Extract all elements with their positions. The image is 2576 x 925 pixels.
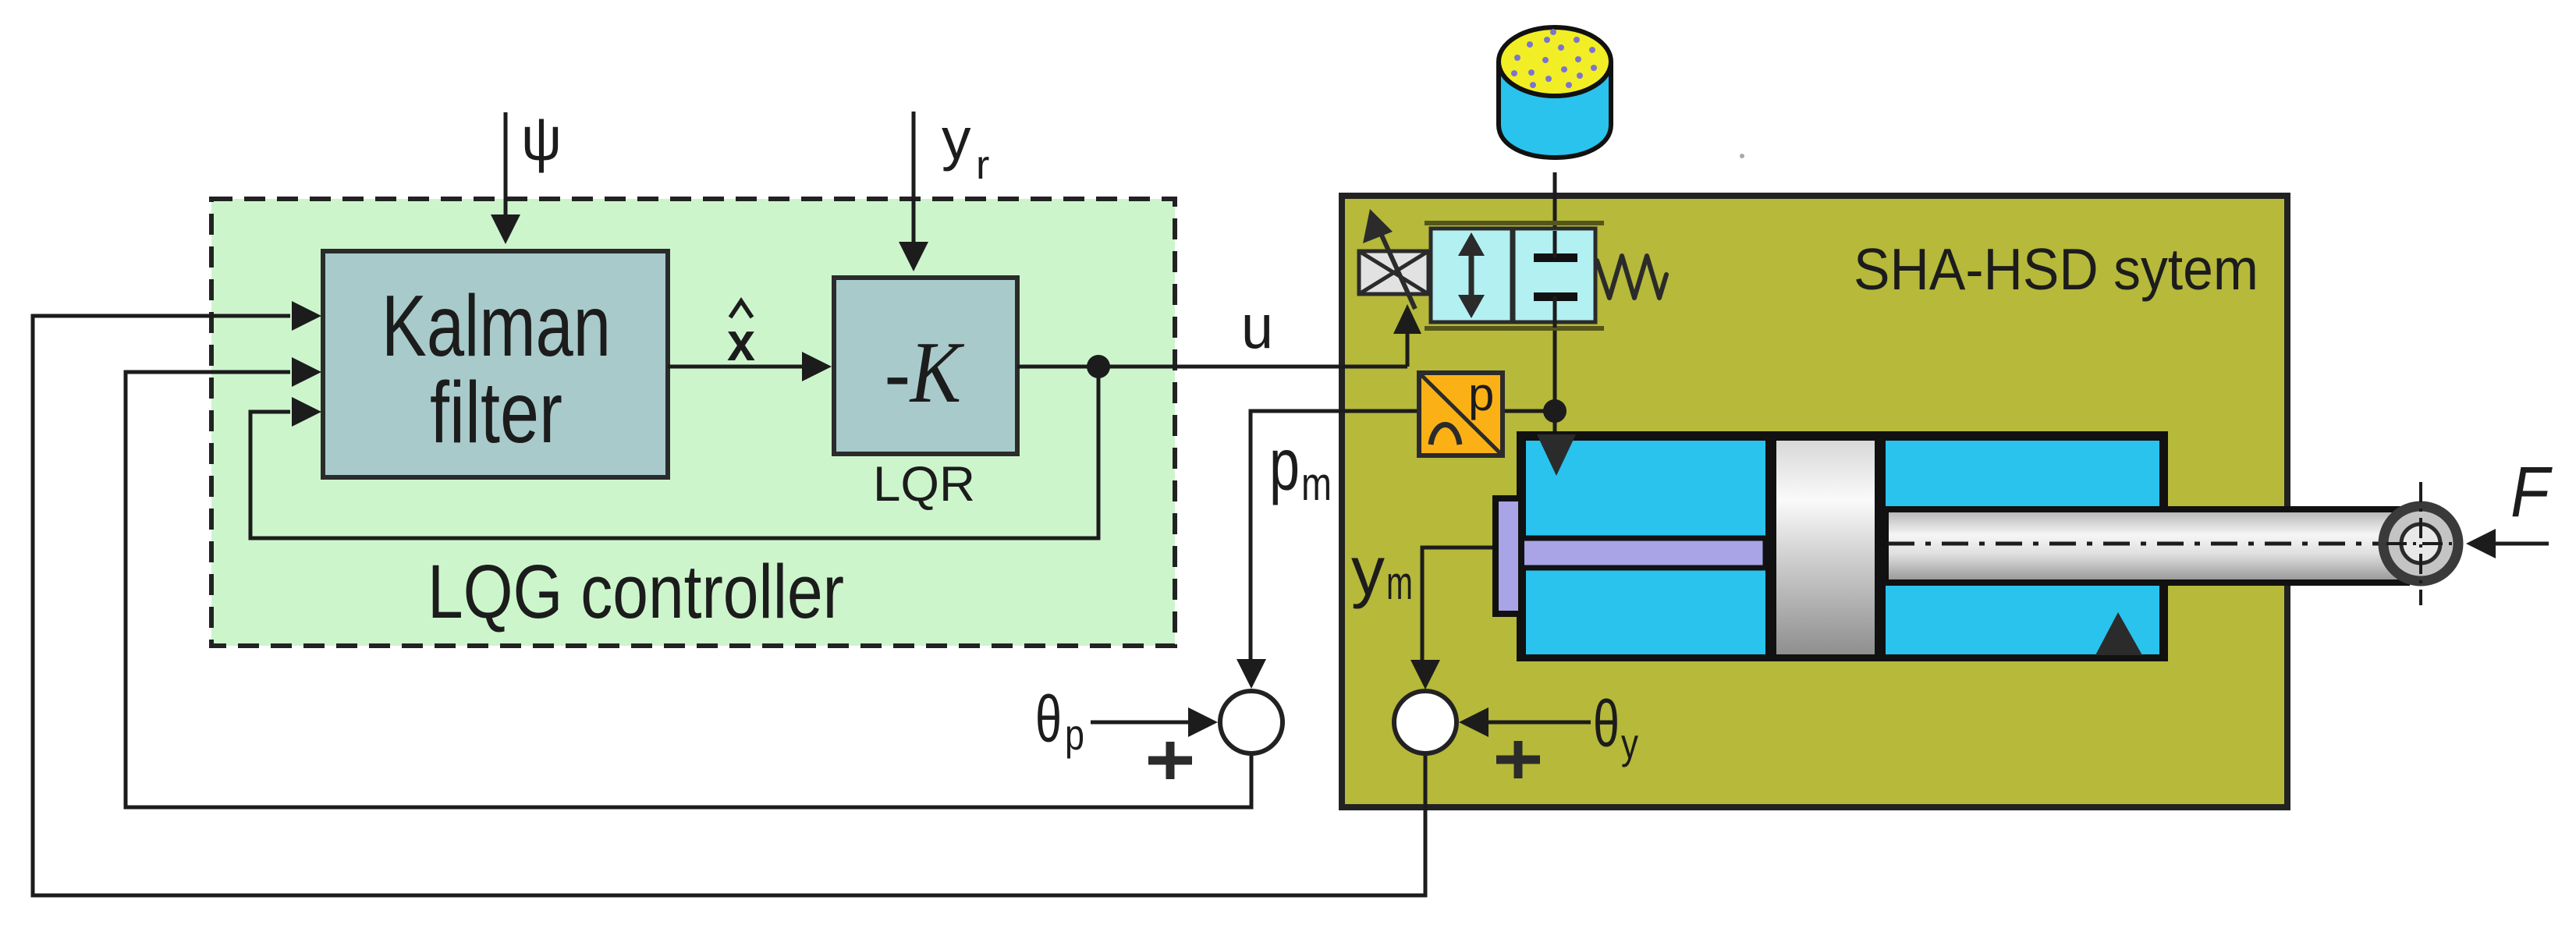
svg-text:-K: -K — [885, 324, 965, 421]
svg-text:F: F — [2510, 452, 2553, 532]
svg-text:y: y — [1621, 719, 1638, 767]
svg-text:p: p — [1065, 710, 1084, 759]
svg-text:p: p — [1269, 424, 1300, 506]
svg-text:r: r — [976, 143, 989, 188]
svg-text:x: x — [727, 311, 755, 372]
svg-text:filter: filter — [430, 364, 562, 461]
svg-text:θ: θ — [1593, 687, 1620, 760]
svg-text:ψ: ψ — [521, 104, 562, 173]
svg-text:y: y — [1351, 532, 1385, 609]
svg-text:Kalman: Kalman — [381, 278, 611, 374]
svg-text:m: m — [1301, 458, 1332, 510]
svg-text:m: m — [1386, 557, 1413, 609]
svg-text:SHA-HSD sytem: SHA-HSD sytem — [1854, 236, 2258, 302]
svg-text:y: y — [942, 106, 971, 172]
svg-text:LQR: LQR — [873, 457, 975, 512]
svg-text:p: p — [1468, 368, 1494, 420]
svg-text:θ: θ — [1035, 682, 1062, 756]
svg-text:u: u — [1241, 292, 1273, 361]
svg-text:LQG controller: LQG controller — [428, 549, 844, 634]
